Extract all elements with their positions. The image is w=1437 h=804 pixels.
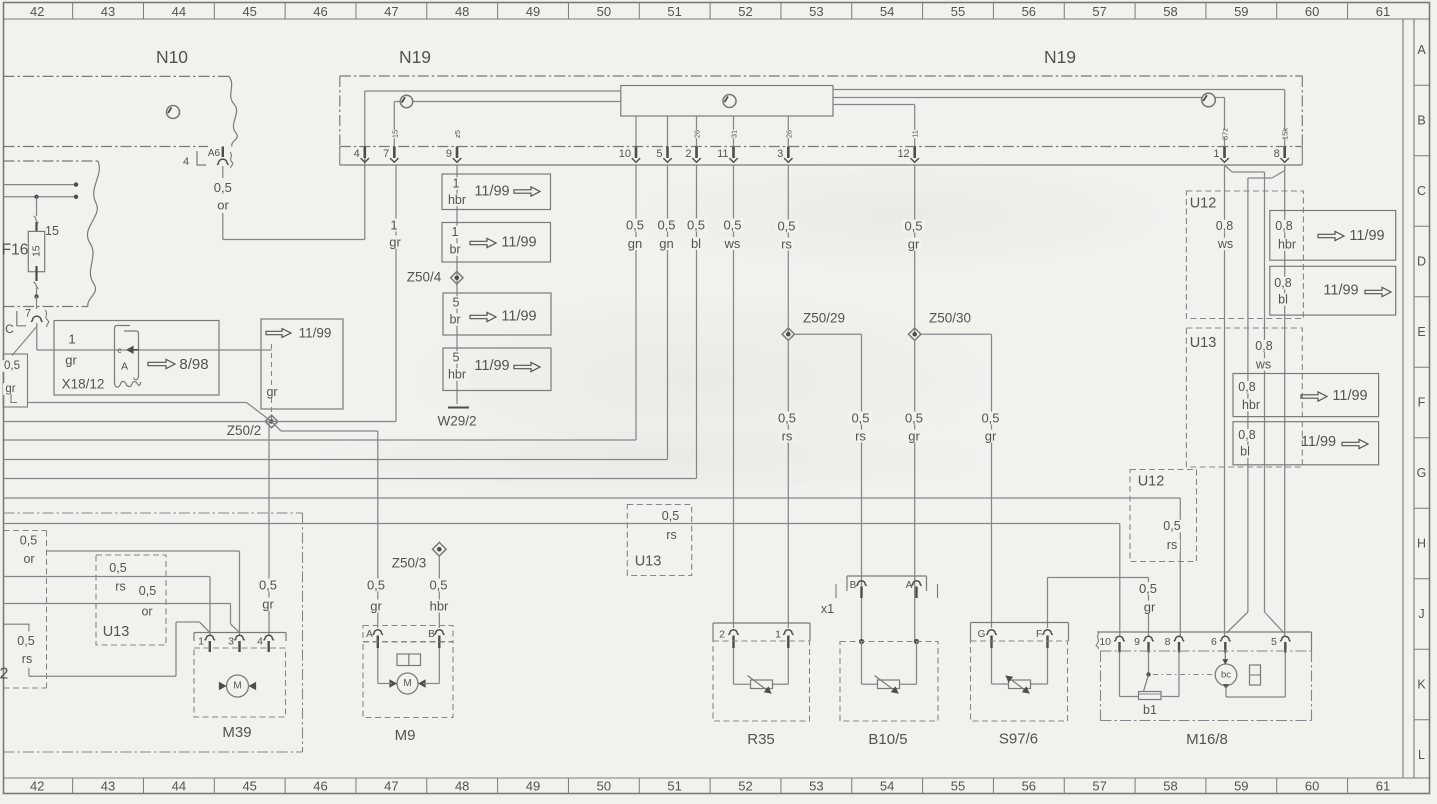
- svg-text:gr: gr: [908, 237, 920, 252]
- svg-text:0,5: 0,5: [214, 180, 232, 195]
- svg-text:B10/5: B10/5: [868, 731, 907, 748]
- svg-text:W29/2: W29/2: [437, 414, 476, 429]
- svg-text:0,5: 0,5: [4, 360, 20, 372]
- svg-text:B: B: [1417, 114, 1425, 128]
- svg-text:8/98: 8/98: [179, 356, 208, 373]
- fuse box (partial, torn edge): [4, 161, 100, 307]
- N19 pin 11: [717, 130, 739, 162]
- svg-text:bl: bl: [691, 236, 701, 251]
- svg-text:bl: bl: [1240, 445, 1250, 459]
- N19 pin 2: [685, 130, 702, 162]
- svg-text:1: 1: [198, 636, 204, 648]
- assembly dashed box around M39: [4, 513, 303, 752]
- svg-text:9: 9: [446, 148, 452, 160]
- svg-text:0,8: 0,8: [1216, 219, 1233, 233]
- svg-text:11: 11: [911, 130, 920, 138]
- svg-text:gr: gr: [908, 429, 920, 444]
- svg-text:0,5: 0,5: [777, 219, 795, 234]
- svg-text:B: B: [850, 580, 857, 591]
- svg-text:11/99: 11/99: [474, 184, 509, 200]
- M16/8 internal wire pin10 to relay b1: [1120, 652, 1139, 697]
- svg-text:4: 4: [183, 156, 189, 168]
- label box 0,5 gr: [1, 354, 27, 407]
- svg-text:10: 10: [1099, 636, 1111, 648]
- M9 pump body: [363, 642, 453, 744]
- connector A6 pin 4 on N10: [183, 147, 233, 169]
- svg-text:rs: rs: [22, 652, 32, 666]
- svg-text:56: 56: [1022, 4, 1036, 19]
- svg-text:51: 51: [667, 4, 681, 19]
- label 0,5 rs left with brackets: [4, 624, 38, 676]
- svg-text:0,5: 0,5: [429, 578, 447, 593]
- svg-text:11/99: 11/99: [474, 358, 509, 374]
- M39 pin 1: [198, 635, 215, 652]
- wire 0,5 gn : N19 pin 5 to left: [4, 165, 679, 460]
- svg-text:9: 9: [1134, 636, 1140, 648]
- svg-text:4: 4: [354, 148, 360, 160]
- svg-text:5: 5: [453, 351, 460, 365]
- N19 pin 8: [1274, 128, 1293, 163]
- svg-text:br: br: [449, 313, 460, 327]
- M39 pin 3: [228, 635, 245, 652]
- arrow box 11/99 gr wire: [261, 319, 343, 422]
- M16/8 pin 8: [1165, 636, 1184, 653]
- svg-text:0,5: 0,5: [139, 584, 156, 598]
- coupler U13 right: [1186, 328, 1302, 467]
- screw terminal on N19 pin 1 line: [1202, 93, 1216, 107]
- relay module N19 outline: [340, 47, 1303, 165]
- svg-text:0,5: 0,5: [904, 219, 922, 234]
- S97/6 pin G: [978, 629, 997, 648]
- svg-text:gr: gr: [65, 353, 77, 368]
- coupler U12 top right: [1186, 191, 1303, 319]
- wire bus in fuse box upper: [4, 182, 79, 186]
- svg-text:0,5: 0,5: [687, 218, 705, 233]
- svg-text:10: 10: [619, 148, 631, 160]
- N19 internal bus bar rectangle: [621, 86, 833, 117]
- fuse F16 15A: [2, 197, 59, 309]
- wire 0,5 gr : Z50/2 to M9 pin A: [272, 422, 388, 629]
- svg-text:H: H: [1417, 537, 1426, 551]
- svg-text:E: E: [1417, 325, 1425, 339]
- wire 0,5 rs : left to U12 to M16/8 pin 8: [4, 498, 1181, 636]
- svg-text:48: 48: [455, 779, 469, 794]
- svg-text:gr: gr: [262, 597, 274, 612]
- wire 0,5 hbr : Z50/3 to M9 pin B: [427, 556, 451, 628]
- svg-text:3: 3: [228, 636, 234, 648]
- svg-text:hbr: hbr: [1242, 398, 1260, 412]
- svg-text:N19: N19: [1044, 47, 1076, 67]
- splice Z50/29: [782, 311, 845, 341]
- sensor B10/5 body: [840, 642, 938, 749]
- M16/8 pin 9: [1134, 636, 1153, 653]
- screw terminal in N19 bus bar: [723, 95, 736, 108]
- wire 0,5 bl : N19 pin 2 to left: [4, 165, 708, 479]
- arrow box 0,8 bl 11/99 (U13): [1233, 422, 1379, 465]
- svg-text:1: 1: [68, 332, 75, 347]
- svg-text:61: 61: [1376, 779, 1390, 794]
- svg-text:N10: N10: [156, 47, 188, 67]
- svg-text:b1: b1: [1143, 703, 1157, 717]
- svg-text:49: 49: [526, 4, 540, 19]
- svg-text:56: 56: [1022, 779, 1036, 794]
- svg-text:55: 55: [951, 779, 965, 794]
- svg-text:Z50/29: Z50/29: [803, 311, 845, 326]
- wire 0,5 gr : Z50/30 to B10/5 pin A: [902, 340, 926, 642]
- svg-text:46: 46: [313, 779, 327, 794]
- svg-text:J: J: [1418, 607, 1424, 621]
- screw terminal inside N10: [167, 106, 180, 119]
- svg-text:C: C: [1417, 184, 1426, 198]
- wire 0,5 rs : left to M39 pin 1: [4, 577, 211, 636]
- svg-text:57: 57: [1092, 779, 1106, 794]
- svg-text:42: 42: [30, 779, 44, 794]
- svg-text:S97/6: S97/6: [999, 731, 1038, 748]
- coupler U13 center: [627, 505, 691, 576]
- svg-text:F16: F16: [2, 242, 29, 259]
- svg-text:rs: rs: [666, 528, 676, 542]
- svg-text:U13: U13: [635, 554, 662, 570]
- arrow box 0,8 hbr 11/99 (U12): [1270, 211, 1396, 261]
- svg-text:0,5: 0,5: [657, 218, 675, 233]
- wire to M16/8 pin 10: [4, 524, 1120, 637]
- svg-text:52: 52: [738, 4, 752, 19]
- screw terminal on N19 pin 7 line: [400, 95, 412, 107]
- svg-text:1: 1: [452, 225, 459, 239]
- svg-text:M16/8: M16/8: [1186, 731, 1228, 748]
- svg-text:D: D: [1417, 255, 1426, 269]
- svg-text:gr: gr: [389, 235, 401, 250]
- x1 pin A: [906, 580, 922, 598]
- R35 sensor body: [713, 641, 810, 748]
- wire 1 hbr/br : N19 pin 9 down to ground: [456, 165, 458, 404]
- svg-text:rs: rs: [855, 429, 866, 444]
- svg-text:11/99: 11/99: [1301, 434, 1336, 450]
- svg-text:gn: gn: [659, 236, 673, 251]
- N19 internal wiring left: [365, 91, 621, 147]
- svg-text:6: 6: [1211, 636, 1217, 648]
- connector x1: [821, 576, 938, 616]
- wire 0,5 gr : Z50/2 to M39 pin 4: [256, 422, 280, 636]
- svg-text:U13: U13: [1190, 335, 1217, 351]
- pin 7 connector below fuse box: [17, 308, 49, 328]
- svg-text:0,5: 0,5: [981, 411, 999, 426]
- svg-text:C: C: [5, 322, 14, 336]
- M16/8 pin 10: [1099, 636, 1124, 653]
- svg-text:0,8: 0,8: [1238, 380, 1255, 394]
- control unit N10 (partial, torn edge): [4, 47, 238, 147]
- R35 pin 2: [719, 629, 739, 649]
- wire 0,5 rs : bracket to M39 pin 1 lower: [29, 622, 210, 676]
- svg-text:11/99: 11/99: [299, 326, 332, 341]
- M16/8 pin 6: [1211, 636, 1230, 653]
- svg-text:11/99: 11/99: [501, 235, 536, 251]
- component box left partial: [4, 531, 47, 689]
- svg-text:bl: bl: [1278, 293, 1288, 307]
- label 0,5 or on lower wire: [136, 584, 159, 619]
- M39 pin 4: [257, 635, 274, 652]
- svg-text:0,5: 0,5: [109, 561, 126, 575]
- svg-text:26: 26: [784, 130, 793, 138]
- svg-text:59: 59: [1234, 779, 1248, 794]
- svg-text:87z: 87z: [1221, 128, 1230, 140]
- svg-text:0,5: 0,5: [1139, 581, 1157, 596]
- M16/8 pin 5: [1271, 636, 1290, 653]
- svg-text:0,5: 0,5: [367, 578, 385, 593]
- arrow box 5 hbr 11/99: [443, 348, 551, 391]
- svg-text:7: 7: [25, 308, 31, 320]
- svg-text:0,5: 0,5: [20, 534, 37, 548]
- svg-text:15: 15: [31, 245, 43, 257]
- M16/8 label: [1186, 731, 1228, 748]
- M16/8 level switch: [1250, 665, 1261, 685]
- wire 0,5 rs : Z50/29 to R35 pin 1: [775, 340, 799, 628]
- svg-text:Z50/3: Z50/3: [392, 556, 427, 571]
- connector X18/12: [54, 321, 219, 396]
- wire 0,5 gr : Z50/30 to S97/6 pin G: [921, 334, 1002, 628]
- bottom ruler numbers 42-61: [30, 778, 1390, 794]
- svg-text:gn: gn: [628, 236, 642, 251]
- blower motor M39 connector bar: [194, 633, 286, 642]
- svg-text:48: 48: [455, 4, 469, 19]
- svg-text:M9: M9: [395, 727, 416, 744]
- svg-text:rs: rs: [1167, 538, 1177, 552]
- wire 0,8 ws : N19 pin 1 to M16/8 pin 6: [1213, 165, 1236, 636]
- svg-text:F: F: [1418, 396, 1426, 410]
- svg-text:52: 52: [738, 779, 752, 794]
- svg-text:55: 55: [951, 4, 965, 19]
- M16/8 body box: [1101, 651, 1312, 721]
- wire gr : label box to Z50/2: [28, 403, 272, 422]
- svg-text:1: 1: [1213, 148, 1219, 160]
- svg-text:49: 49: [526, 779, 540, 794]
- svg-text:hbr: hbr: [448, 368, 466, 382]
- arrow 8/98: [148, 356, 209, 373]
- sensor S97/6 connector bar: [971, 623, 1069, 642]
- svg-text:3: 3: [777, 148, 783, 160]
- svg-text:0,5: 0,5: [851, 411, 869, 426]
- relay coil b1: [1139, 692, 1162, 718]
- svg-text:5: 5: [656, 148, 662, 160]
- svg-text:z5: z5: [453, 130, 462, 138]
- svg-text:59: 59: [1234, 4, 1248, 19]
- svg-text:0,5: 0,5: [626, 218, 644, 233]
- svg-text:50: 50: [597, 779, 611, 794]
- coupler U12 right middle: [1130, 470, 1197, 562]
- svg-text:hbr: hbr: [1278, 238, 1296, 252]
- ground point W29/2: [437, 408, 476, 429]
- svg-text:or: or: [141, 605, 152, 619]
- N19 pin 9: [446, 130, 463, 162]
- svg-text:0,8: 0,8: [1255, 339, 1272, 353]
- svg-text:A6: A6: [208, 148, 221, 159]
- splice Z50/4: [404, 270, 463, 285]
- svg-text:45: 45: [242, 4, 256, 19]
- N19 pin 4: [354, 147, 369, 163]
- M16/8 pump motor bc: [1215, 653, 1285, 698]
- svg-text:M39: M39: [222, 724, 251, 741]
- svg-text:61: 61: [1376, 4, 1390, 19]
- svg-text:ws: ws: [1217, 237, 1233, 251]
- svg-text:11/99: 11/99: [501, 309, 536, 325]
- svg-text:15k: 15k: [1281, 128, 1290, 140]
- wire 0,8 ws : N19 pin 1 jog to M16/8 pin 5: [1225, 165, 1285, 633]
- N19 pin 12: [897, 130, 920, 162]
- svg-text:Z50/4: Z50/4: [407, 270, 442, 285]
- svg-text:11/99: 11/99: [1332, 388, 1367, 404]
- svg-text:0,5: 0,5: [1163, 519, 1180, 533]
- S97/6 sensor body: [971, 641, 1068, 748]
- splice Z50/30: [909, 311, 972, 341]
- splice Z50/3: [392, 542, 446, 570]
- svg-text:8: 8: [1165, 636, 1171, 648]
- svg-text:gr: gr: [1144, 600, 1156, 615]
- M9 pin A: [366, 629, 383, 648]
- svg-text:0,5: 0,5: [723, 218, 741, 233]
- svg-text:42: 42: [30, 4, 44, 19]
- svg-text:or: or: [23, 552, 34, 566]
- wire 0,5 rs : N19 pin 3 to splice Z50/29: [775, 165, 799, 334]
- R35 pin 1: [775, 629, 793, 649]
- right ruler letters A-L: [1414, 43, 1430, 762]
- svg-text:5: 5: [1271, 636, 1277, 648]
- wire 0,5 or : N10 pin 4 to N19 pin 4: [214, 91, 365, 240]
- svg-text:2: 2: [685, 148, 691, 160]
- svg-text:gr: gr: [985, 429, 997, 444]
- terminal 2 label: [0, 666, 9, 683]
- svg-text:gr: gr: [370, 599, 382, 614]
- wire : N19 pin 8 jog to M16/8 pin 6: [1227, 165, 1285, 633]
- node C label: [5, 322, 14, 336]
- svg-text:or: or: [217, 198, 229, 213]
- svg-text:54: 54: [880, 4, 894, 19]
- pump M9 connector bar: [363, 626, 453, 642]
- wire 0,5 ws : N19 pin 11 to R35 pin 2: [721, 165, 745, 628]
- splice Z50/2: [227, 415, 278, 438]
- svg-text:hbr: hbr: [448, 193, 466, 207]
- wire 0,5 gr : pin 7 to label box: [12, 327, 37, 356]
- svg-text:11/99: 11/99: [1323, 283, 1358, 299]
- svg-text:47: 47: [384, 4, 398, 19]
- svg-text:47: 47: [384, 779, 398, 794]
- wire gr : pin 7 to X18/12: [37, 323, 272, 350]
- svg-text:rs: rs: [115, 580, 125, 594]
- svg-text:0,5: 0,5: [905, 411, 923, 426]
- wire : S97/6 pin F to M16/8 pin 9: [1048, 578, 1160, 637]
- svg-text:X18/12: X18/12: [62, 377, 105, 392]
- svg-text:gr: gr: [266, 385, 277, 399]
- svg-text:53: 53: [809, 779, 823, 794]
- svg-text:2: 2: [719, 629, 725, 641]
- S97/6 pin F: [1036, 629, 1053, 648]
- N19 pin 10: [619, 147, 640, 163]
- arrow box 1 hbr 11/99: [442, 174, 551, 210]
- svg-text:A: A: [1417, 43, 1426, 57]
- svg-text:U12: U12: [1138, 474, 1165, 490]
- wire : N19 pin 8 to M16/8 pin 5: [1284, 165, 1286, 636]
- M39 motor body: [194, 648, 286, 741]
- svg-text:x1: x1: [821, 602, 834, 616]
- svg-text:12: 12: [897, 148, 909, 160]
- svg-text:0,5: 0,5: [778, 411, 796, 426]
- svg-text:44: 44: [172, 4, 186, 19]
- svg-text:1: 1: [775, 629, 781, 641]
- wire 1 gr : Z50/2 to N19 pin 7: [4, 165, 404, 422]
- N19 pin 7: [383, 130, 400, 162]
- svg-text:58: 58: [1163, 4, 1177, 19]
- svg-text:11: 11: [717, 148, 728, 160]
- svg-text:A: A: [366, 629, 373, 640]
- arrow box 1 br 11/99: [442, 223, 551, 263]
- wire 0,5 gr : N19 pin 12 to splice Z50/30: [902, 165, 926, 334]
- svg-text:46: 46: [313, 4, 327, 19]
- svg-text:br: br: [449, 243, 460, 257]
- svg-text:4: 4: [257, 636, 263, 648]
- svg-text:G: G: [1417, 466, 1427, 480]
- svg-text:11/99: 11/99: [1349, 228, 1384, 244]
- N19 pin 1: [1213, 128, 1232, 163]
- svg-text:0,5: 0,5: [17, 634, 34, 648]
- junction dots on B10/5: [859, 639, 919, 644]
- svg-text:31: 31: [730, 130, 739, 138]
- svg-text:U13: U13: [103, 624, 130, 640]
- svg-text:7: 7: [383, 148, 389, 160]
- svg-text:15: 15: [390, 130, 399, 138]
- svg-text:60: 60: [1305, 779, 1319, 794]
- sensor R35 connector bar: [713, 623, 810, 641]
- svg-text:ws: ws: [724, 236, 741, 251]
- arrow box 5 br 11/99: [443, 293, 551, 335]
- svg-text:5: 5: [453, 296, 460, 310]
- svg-text:26: 26: [693, 130, 702, 138]
- svg-text:44: 44: [172, 779, 186, 794]
- svg-text:43: 43: [101, 779, 115, 794]
- N19 pin 3: [777, 130, 794, 162]
- svg-text:M: M: [233, 681, 241, 692]
- svg-text:57: 57: [1092, 4, 1106, 19]
- svg-text:2: 2: [0, 666, 9, 683]
- svg-text:L: L: [1418, 748, 1425, 762]
- svg-text:F: F: [1036, 629, 1042, 640]
- svg-text:hbr: hbr: [430, 599, 449, 614]
- svg-text:U12: U12: [1190, 196, 1217, 212]
- arrow box 0,8 bl 11/99 (U12): [1270, 266, 1396, 315]
- x1 pin B: [850, 580, 867, 598]
- svg-text:58: 58: [1163, 779, 1177, 794]
- svg-text:gr: gr: [5, 383, 15, 395]
- N19 pin 5: [656, 147, 671, 163]
- svg-text:1: 1: [453, 177, 460, 191]
- M9 pin B: [428, 629, 444, 648]
- svg-text:50: 50: [597, 4, 611, 19]
- coupler U13 left: [96, 555, 166, 645]
- svg-text:bc: bc: [1221, 669, 1231, 680]
- wire bus in fuse box lower: [4, 195, 79, 199]
- label 0,5 or left: [17, 534, 40, 567]
- arrow box 0,8 hbr 11/99 (U13): [1233, 374, 1379, 417]
- svg-text:53: 53: [809, 4, 823, 19]
- M16/8 relay contact lever pin 9: [1144, 652, 1214, 692]
- N19 internal wiring right: [636, 90, 1285, 147]
- pump unit M16/8 connector bar: [1096, 632, 1311, 651]
- wire 0,5 or : to M39 pin 3: [47, 551, 240, 635]
- svg-text:Z50/2: Z50/2: [227, 423, 262, 438]
- svg-text:8: 8: [1274, 148, 1280, 160]
- svg-text:43: 43: [101, 4, 115, 19]
- svg-text:rs: rs: [781, 237, 792, 252]
- svg-text:ws: ws: [1255, 358, 1271, 372]
- wire 0,5 rs : Z50/29 to B10/5 pin B: [795, 334, 873, 641]
